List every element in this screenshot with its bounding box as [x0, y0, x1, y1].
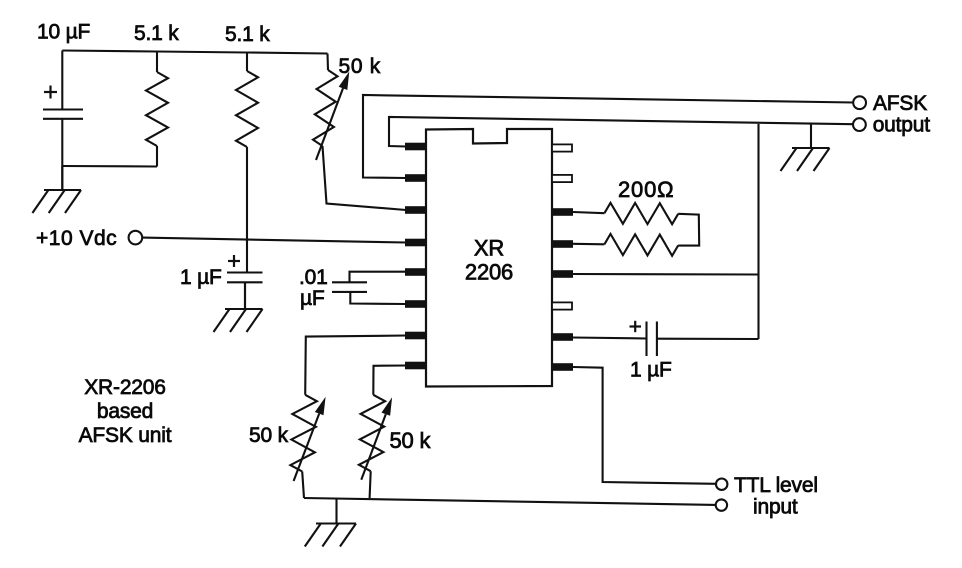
U1 left pin 2: [405, 174, 426, 182]
U1 right pin 13: [552, 270, 573, 278]
svg-text:AFSK: AFSK: [873, 92, 927, 115]
op-amp U1 XR-2206 IC body: [426, 129, 552, 387]
wire pin1 to output line: [389, 117, 853, 147]
U1 left pin 1: [405, 143, 426, 151]
svg-text:AFSK unit: AFSK unit: [79, 424, 172, 447]
svg-text:XR-2206: XR-2206: [84, 376, 165, 399]
terminal +10 Vdc: [129, 231, 143, 245]
resistor R1 5.1k: [146, 52, 168, 167]
U1 right pin 11: [552, 208, 573, 216]
wire C1 bottom to R1 bottom: [62, 165, 157, 168]
ground (output): [781, 123, 830, 171]
potentiometer R5 50k (bottom left): [290, 336, 406, 499]
U1 right pin 10: [552, 175, 572, 182]
ground (below C1): [32, 166, 81, 213]
resistor R4 200ohm: [573, 203, 699, 256]
U1 left pin 8: [405, 362, 426, 370]
U1 left pin 6: [405, 300, 426, 308]
ground (bottom): [305, 499, 356, 547]
svg-text:.01: .01: [299, 266, 328, 289]
svg-text:TTL level: TTL level: [734, 474, 818, 497]
C2 polarity +: [228, 255, 240, 267]
svg-text:5.1 k: 5.1 k: [225, 23, 270, 46]
svg-text:+10 Vdc: +10 Vdc: [36, 227, 117, 250]
svg-text:XR: XR: [474, 236, 504, 261]
wire top supply rail: [62, 51, 327, 54]
U1 right pin 15: [552, 333, 573, 341]
capacitor C1 10uF: [43, 51, 83, 191]
wire +10 Vdc to pin 4: [142, 238, 406, 243]
U1 right pin 14: [552, 302, 572, 309]
terminal input: [716, 499, 727, 510]
wire pin10 to TTL terminal: [573, 367, 716, 484]
svg-text:1 µF: 1 µF: [630, 359, 672, 382]
capacitor C2 1uF: [227, 273, 263, 310]
svg-text:input: input: [753, 496, 798, 519]
wire pin11 to C4: [573, 338, 647, 339]
C4 polarity +: [630, 321, 642, 332]
U1 left pin 5: [405, 268, 426, 276]
U1 left pin 3: [405, 206, 426, 214]
capacitor C4 1uF: [647, 322, 759, 357]
R3 wiper arrow: [316, 88, 343, 160]
wire pin13 to right bus: [573, 273, 759, 276]
U1 left pin 4: [405, 239, 426, 247]
terminal output: [853, 118, 866, 131]
potentiometer R6 50k (bottom right): [359, 366, 406, 499]
svg-text:5.1 k: 5.1 k: [134, 22, 179, 45]
wire right bus vertical: [757, 124, 759, 339]
svg-text:output: output: [873, 114, 931, 137]
svg-text:µF: µF: [300, 287, 325, 310]
svg-text:50 k: 50 k: [390, 428, 432, 453]
potentiometer R3 50k (top): [313, 54, 406, 211]
svg-text:50 k: 50 k: [249, 424, 289, 447]
U1 right pin 16: [552, 363, 573, 371]
U1 left pin 7: [405, 332, 426, 340]
R6 wiper arrow: [361, 414, 386, 480]
R5 wiper arrow: [294, 414, 320, 481]
ground (below C2): [214, 282, 263, 332]
terminal TTL level: [716, 479, 727, 490]
wire pin2 to AFSK line: [363, 95, 853, 178]
C1 polarity +: [44, 86, 57, 99]
resistor R2 5.1k: [236, 53, 258, 273]
terminal AFSK: [853, 96, 866, 109]
svg-text:10 µF: 10 µF: [37, 21, 90, 44]
capacitor C3 .01uF: [332, 272, 406, 304]
svg-text:200Ω: 200Ω: [618, 177, 674, 202]
U1 right pin 9: [552, 144, 572, 151]
svg-text:50 k: 50 k: [339, 55, 382, 78]
svg-text:based: based: [97, 400, 153, 423]
svg-text:2206: 2206: [465, 260, 513, 285]
U1 right pin 12: [552, 240, 573, 248]
wire bottom rail to input terminal: [304, 498, 716, 505]
svg-text:1 µF: 1 µF: [180, 266, 222, 289]
